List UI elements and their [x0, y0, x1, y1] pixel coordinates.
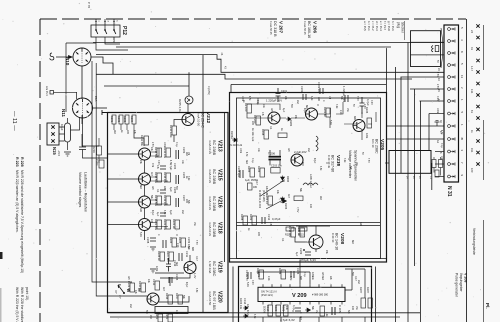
- wire left drop x92: [92, 61, 132, 282]
- svg-text:b: b: [116, 21, 118, 23]
- svg-text:2k2: 2k2: [149, 315, 152, 320]
- svg-text:R215 56k: R215 56k: [154, 172, 158, 184]
- svg-text:N 31: N 31: [446, 186, 452, 197]
- wire long bus y42: [93, 42, 444, 44]
- cap under N11: [79, 115, 107, 158]
- svg-text:C203 10n: C203 10n: [271, 165, 282, 168]
- svg-text:Impulsgeber: Impulsgeber: [459, 273, 463, 293]
- coupling cap stage4: [160, 210, 173, 216]
- svg-text:C 305: C 305: [338, 305, 342, 313]
- svg-text:g = PL8: g = PL8: [387, 21, 391, 31]
- svg-text:0,1µ: 0,1µ: [303, 272, 305, 277]
- input resistor R204: [130, 115, 136, 130]
- rail from box top to stages: [108, 112, 181, 114]
- resistors at connector bottom: [432, 157, 443, 177]
- svg-text:0,1: 0,1: [156, 189, 159, 193]
- svg-text:100: 100: [150, 219, 153, 224]
- diode D282: [286, 117, 293, 127]
- svg-text:3: 3: [460, 150, 464, 152]
- diagonal leader lines: [260, 180, 285, 209]
- svg-text:7,5V: 7,5V: [436, 72, 438, 77]
- svg-text:7,5V: 7,5V: [367, 158, 369, 163]
- svg-text:V215: V215: [217, 169, 223, 181]
- label V220: [208, 291, 223, 310]
- svg-text:1: 1: [460, 99, 464, 101]
- svg-text:C310: C310: [266, 305, 270, 312]
- svg-text:V205: V205: [379, 139, 385, 151]
- svg-text:11: 11: [470, 130, 474, 133]
- svg-text:V208: V208: [339, 233, 345, 245]
- svg-text:56k: 56k: [311, 306, 314, 311]
- svg-text:4,7µF: 4,7µF: [366, 99, 370, 106]
- wire V212 collector up: [187, 104, 189, 114]
- box2 internal rails: [237, 223, 381, 226]
- svg-text:(PL# 121): (PL# 121): [261, 293, 273, 297]
- label V213: [208, 140, 223, 156]
- svg-text:10k: 10k: [147, 279, 150, 284]
- svg-text:47µF: 47µF: [185, 282, 187, 288]
- svg-text:R305: R305: [282, 305, 286, 312]
- svg-text:C201: C201: [95, 159, 99, 166]
- svg-text:8k2: 8k2: [351, 240, 354, 245]
- svg-text:R 223: R 223: [15, 157, 19, 167]
- svg-text:6,8k: 6,8k: [195, 288, 197, 293]
- resistor R211 above V213: [140, 135, 149, 147]
- board outline box1: [108, 113, 229, 313]
- resistor row under rails: [285, 227, 307, 237]
- transistor V208: [305, 235, 323, 249]
- cluster left-mid box2 row: [237, 166, 265, 178]
- label Stecker plug: [397, 21, 405, 40]
- extra annotation speckle: [127, 60, 442, 319]
- transistor V216: [139, 196, 151, 208]
- DIN socket N10: [73, 48, 91, 66]
- svg-text:C204: C204: [173, 163, 177, 170]
- cluster above V219: [157, 251, 189, 263]
- svg-text:0,47: 0,47: [255, 180, 258, 185]
- svg-text:2,2k: 2,2k: [339, 110, 342, 115]
- tiny pin labels right of buses: [437, 68, 442, 154]
- cap C226: [169, 274, 179, 283]
- box3 outer left edge: [232, 267, 234, 322]
- svg-text:R: R: [325, 162, 327, 164]
- svg-text:With R 223 the (5) 5 V are adj: With R 223 the (5) 5 V are adjusted.: [15, 287, 19, 322]
- svg-text:9 40 10: 9 40 10: [331, 233, 335, 243]
- wire y86 to V211: [104, 85, 189, 87]
- svg-text:V218: V218: [217, 222, 223, 234]
- svg-text:point 15).: point 15).: [25, 287, 29, 301]
- svg-text:L206 1,2µH: L206 1,2µH: [309, 174, 313, 188]
- svg-text:3,9k: 3,9k: [325, 312, 327, 317]
- svg-text:V 209: V 209: [292, 293, 307, 299]
- svg-text:8: 8: [460, 51, 464, 53]
- small component cluster near box1 top-left: [95, 159, 104, 168]
- svg-text:12k: 12k: [134, 290, 137, 295]
- cap C201 top: [276, 88, 288, 102]
- svg-text:47µF: 47µF: [151, 210, 153, 216]
- transistor V218: [139, 219, 151, 231]
- base stub wires: [108, 154, 139, 225]
- svg-text:3,9k: 3,9k: [335, 104, 337, 109]
- caps around V204: [300, 82, 331, 117]
- svg-text:8: 8: [439, 152, 442, 154]
- stub PL4: [50, 91, 54, 95]
- svg-text:0,6V: 0,6V: [251, 280, 253, 285]
- svg-text:5,6V: 5,6V: [329, 120, 332, 125]
- svg-text:2k2: 2k2: [319, 196, 322, 201]
- wire N11 to box: [93, 107, 108, 109]
- transistor V220: [147, 293, 159, 305]
- svg-text:1µF: 1µF: [282, 108, 285, 113]
- label V210: [327, 155, 341, 172]
- svg-text:180: 180: [253, 186, 258, 189]
- svg-text:4k7: 4k7: [162, 287, 165, 292]
- svg-text:2,2k: 2,2k: [176, 243, 179, 248]
- bracket before connector: [441, 28, 443, 68]
- vertical bus x386: [386, 48, 388, 259]
- diode D206 mid: [281, 199, 288, 210]
- svg-text:R2 100: R2 100: [244, 103, 248, 112]
- svg-text:2n2: 2n2: [357, 280, 359, 285]
- diode D307: [243, 306, 267, 318]
- connector strip N31: [444, 25, 464, 182]
- svg-text:R212 56k: R212 56k: [154, 147, 158, 159]
- svg-text:C226: C226: [175, 274, 179, 281]
- svg-text:e = PL4: e = PL4: [379, 21, 383, 31]
- svg-text:4,7k: 4,7k: [248, 96, 250, 101]
- svg-text:R: R: [175, 234, 177, 236]
- wire P12 pin1 down: [96, 37, 128, 50]
- vertical coil L206b: [316, 136, 318, 151]
- svg-text:61: 61: [470, 110, 474, 113]
- components right of V220: [165, 293, 183, 304]
- svg-text:4k7: 4k7: [287, 194, 290, 199]
- svg-text:D283: D283: [286, 176, 289, 183]
- short segments x483: [483, 25, 485, 322]
- wire V212 base: [174, 120, 182, 143]
- bottom rail components: [155, 313, 173, 322]
- svg-text:C231: C231: [165, 313, 169, 320]
- svg-text:680: 680: [353, 116, 356, 121]
- svg-text:1µF: 1µF: [156, 212, 159, 217]
- svg-text:220: 220: [257, 232, 260, 237]
- svg-text:4,7k: 4,7k: [289, 276, 291, 281]
- coupling cap stage1: [151, 163, 177, 170]
- svg-text:R221 56k: R221 56k: [154, 219, 158, 231]
- svg-text:4k7: 4k7: [299, 316, 302, 321]
- svg-text:f = PL7: f = PL7: [383, 21, 387, 30]
- wire long bus y47: [116, 46, 391, 48]
- diode D305: [305, 308, 311, 312]
- svg-text:R218 56k: R218 56k: [154, 195, 158, 207]
- svg-text:R223 2k: R223 2k: [172, 219, 176, 229]
- wire stubs below box3: [263, 317, 365, 322]
- input resistor R202: [117, 115, 123, 130]
- svg-text:R: R: [291, 310, 293, 312]
- svg-text:7: 7: [460, 162, 464, 164]
- svg-text:560: 560: [290, 104, 292, 109]
- svg-text:R224: R224: [169, 237, 173, 244]
- svg-text:Pl.: Pl.: [485, 303, 490, 309]
- resistor cluster under V210: [265, 194, 303, 213]
- resistor column under IC: [266, 305, 288, 316]
- svg-text:DC 318 B: DC 318 B: [273, 21, 277, 37]
- svg-text:10k: 10k: [150, 147, 153, 152]
- cluster mid box2: [261, 128, 287, 139]
- svg-text:V212: V212: [205, 112, 211, 124]
- svg-text:47k: 47k: [133, 130, 136, 135]
- svg-text:30: 30: [439, 120, 442, 123]
- svg-text:D 293 A,D 206: D 293 A,D 206: [258, 190, 262, 209]
- svg-text:100: 100: [470, 168, 474, 173]
- label V208: [331, 233, 345, 250]
- svg-text:5V: 5V: [436, 60, 438, 63]
- svg-text:0,1: 0,1: [269, 126, 272, 130]
- svg-text:5,6V: 5,6V: [139, 232, 142, 237]
- bottom rail wires: [108, 312, 421, 314]
- svg-text:82k: 82k: [187, 200, 189, 205]
- svg-text:5V: 5V: [187, 246, 189, 249]
- svg-text:330: 330: [359, 222, 362, 227]
- svg-text:7,5V: 7,5V: [195, 240, 197, 245]
- svg-text:0,6V: 0,6V: [436, 96, 438, 101]
- svg-text:15n: 15n: [193, 222, 195, 227]
- svg-text:3k3: 3k3: [175, 262, 178, 267]
- capacitor C near V205: [360, 97, 371, 114]
- svg-text:9: 9: [460, 175, 464, 177]
- svg-text:1M: 1M: [187, 152, 189, 155]
- svg-text:D206: D206: [284, 203, 288, 210]
- svg-text:R 228: R 228: [20, 157, 24, 167]
- resistor row above V220: [127, 279, 160, 293]
- svg-text:Voltage converter: Voltage converter: [348, 150, 352, 179]
- svg-text:1M: 1M: [328, 96, 330, 99]
- svg-text:R203: R203: [123, 116, 127, 123]
- svg-text:R210 120k: R210 120k: [169, 125, 173, 138]
- svg-text:10n: 10n: [440, 156, 442, 161]
- cap C1 220uF label top: [342, 86, 348, 102]
- board outline box2 inner: [237, 98, 381, 259]
- connector P12: [91, 19, 120, 37]
- svg-text:2n2: 2n2: [307, 148, 309, 153]
- svg-text:1k 13k 1,6k: 1k 13k 1,6k: [251, 128, 255, 142]
- svg-text:V216: V216: [217, 196, 223, 208]
- svg-text:4: 4: [460, 39, 464, 41]
- resistor R126 above V205: [365, 107, 372, 128]
- small resistor R229: [92, 138, 102, 163]
- component cluster stage4: [154, 219, 180, 231]
- wire V220 out: [159, 277, 189, 302]
- label V218: [208, 222, 223, 238]
- svg-text:±0°: ±0°: [114, 290, 118, 294]
- svg-text:R209: R209: [249, 214, 253, 221]
- svg-text:4k7: 4k7: [150, 172, 153, 177]
- svg-text:4,7k: 4,7k: [245, 152, 247, 157]
- input resistor R201: [110, 115, 116, 130]
- cap C209 under V208: [299, 248, 311, 255]
- svg-text:R212 100: R212 100: [288, 226, 292, 238]
- wire V219 emitter: [155, 255, 190, 278]
- svg-text:R202: R202: [117, 116, 121, 123]
- transistor V213: [139, 148, 151, 160]
- plug frame box: [385, 140, 439, 179]
- svg-text:101 10: 101 10: [371, 139, 375, 148]
- svg-text:V 208: V 208: [464, 273, 468, 282]
- ground marks mid-left: [150, 247, 156, 251]
- scan edge artifact: [0, 252, 3, 259]
- svg-text:0,1µ: 0,1µ: [256, 100, 258, 105]
- cluster top-left of box2: [244, 103, 261, 142]
- svg-text:1,3V 4mA: 1,3V 4mA: [208, 261, 212, 273]
- svg-text:24: 24: [470, 30, 474, 33]
- svg-text:47k: 47k: [151, 163, 155, 168]
- svg-text:4 can 50 25: 4 can 50 25: [303, 21, 307, 35]
- svg-text:6,8k: 6,8k: [253, 314, 255, 319]
- svg-text:C211: C211: [185, 251, 189, 258]
- svg-text:P 70: P 70: [87, 2, 91, 8]
- svg-text:R211 56k: R211 56k: [140, 135, 144, 147]
- wires inside box2 top: [247, 98, 343, 128]
- svg-text:8k2: 8k2: [139, 185, 142, 190]
- svg-text:10µF: 10µF: [60, 124, 64, 131]
- svg-text:V 207: V 207: [279, 21, 284, 33]
- svg-text:C: C: [322, 100, 324, 102]
- svg-text:47k: 47k: [269, 222, 272, 227]
- cap 4,7uF: [292, 305, 301, 311]
- transistor V219: [184, 262, 196, 274]
- svg-text:2n2: 2n2: [181, 210, 183, 215]
- svg-text:1k5: 1k5: [287, 148, 289, 152]
- wire N10 to N11: [81, 66, 83, 99]
- box3 outer right edge: [375, 267, 377, 322]
- svg-text:3k3: 3k3: [321, 276, 324, 281]
- head symbol B with arrow: [114, 285, 131, 299]
- svg-text:0,47: 0,47: [195, 256, 198, 261]
- svg-text:R229: R229: [92, 146, 96, 153]
- svg-text:82k: 82k: [347, 310, 349, 315]
- svg-text:D206A: D206A: [230, 131, 234, 139]
- svg-text:R213 10k: R213 10k: [163, 147, 167, 159]
- svg-text:330: 330: [139, 208, 142, 213]
- svg-text:0,1µ: 0,1µ: [251, 158, 253, 163]
- svg-text:191: 191: [470, 148, 474, 153]
- svg-text:220: 220: [126, 130, 129, 135]
- svg-text:43: 43: [220, 53, 223, 56]
- svg-text:R229 62k: R229 62k: [127, 281, 131, 293]
- svg-text:15n: 15n: [355, 306, 357, 311]
- svg-text:c = PL2: c = PL2: [371, 21, 375, 31]
- svg-text:0,47µF: 0,47µF: [272, 217, 281, 221]
- svg-text:5V: 5V: [361, 152, 363, 155]
- dashed page border left: [39, 19, 41, 322]
- cap C305: [320, 305, 342, 316]
- wire box2 bottom bus: [230, 258, 387, 260]
- board outline box3: [239, 267, 372, 322]
- svg-text:Pulse generator: Pulse generator: [455, 273, 459, 298]
- arrow into N10: [56, 56, 72, 59]
- svg-text:15k: 15k: [139, 160, 142, 165]
- svg-text:R206: R206: [257, 166, 261, 173]
- svg-text:4 mA 10 2k: 4 mA 10 2k: [208, 222, 212, 237]
- svg-text:D306: D306: [263, 306, 267, 313]
- svg-text:1M: 1M: [337, 162, 339, 165]
- svg-text:0,47: 0,47: [354, 276, 357, 281]
- resistors left of V208: [288, 226, 305, 238]
- svg-text:120k: 120k: [365, 133, 368, 139]
- svg-text:— 11 —: — 11 —: [11, 111, 17, 131]
- wire P12 pin3 down: [113, 37, 115, 43]
- ground under electrolytic: [64, 152, 71, 156]
- svg-text:N11: N11: [61, 109, 66, 118]
- mic curl symbol: [50, 53, 54, 60]
- svg-text:6,8k: 6,8k: [310, 96, 312, 101]
- wire N10 right steps: [91, 57, 113, 74]
- svg-text:1.17: 1.17: [470, 66, 474, 72]
- transistor V205: [353, 120, 365, 132]
- ground at pin 113: [435, 120, 440, 126]
- svg-text:1k5: 1k5: [270, 108, 272, 112]
- svg-text:T 206: T 206: [268, 152, 276, 156]
- svg-text:100: 100: [175, 310, 178, 315]
- transistor V212: [182, 114, 194, 126]
- wire left drop x66: [66, 43, 96, 112]
- connector N15: [47, 123, 65, 145]
- stub wires lower pins: [387, 125, 445, 127]
- svg-text:1µF: 1µF: [169, 210, 173, 215]
- component cluster stage1: [154, 147, 186, 159]
- transistor V203: [268, 112, 280, 124]
- svg-text:# 989 380 380: # 989 380 380: [312, 293, 329, 296]
- svg-text:Volume control stages: Volume control stages: [78, 172, 82, 208]
- transistor V204: [306, 108, 318, 120]
- svg-text:5V: 5V: [352, 104, 354, 107]
- svg-text:Lautstärke – Regelstufen: Lautstärke – Regelstufen: [84, 172, 88, 212]
- svg-text:3,9k: 3,9k: [343, 158, 345, 163]
- svg-text:15: 15: [437, 89, 440, 92]
- svg-text:1µF: 1µF: [169, 187, 173, 192]
- resistors R207 R307: [359, 287, 373, 308]
- svg-text:220: 220: [251, 121, 254, 126]
- svg-text:D282: D282: [289, 120, 293, 127]
- svg-text:R216 10k: R216 10k: [163, 172, 167, 184]
- svg-text:With R 228 the stabilized 7,5: With R 228 the stabilized 7,5 V supply i…: [20, 287, 24, 322]
- svg-text:R213 1k: R213 1k: [297, 226, 301, 236]
- svg-text:R207: R207: [359, 287, 363, 294]
- electrolytic capacitor: [60, 117, 80, 150]
- svg-text:R219 10k: R219 10k: [163, 195, 167, 207]
- label V215: [208, 169, 223, 185]
- svg-text:82k: 82k: [340, 96, 342, 101]
- svg-text:100: 100: [309, 204, 312, 209]
- x-mark column: [476, 24, 479, 165]
- switch box bottom: [155, 307, 188, 314]
- svg-text:7,5V: 7,5V: [356, 96, 358, 101]
- svg-text:4,7k: 4,7k: [440, 130, 442, 135]
- wire left drop x96 long: [96, 63, 147, 296]
- wire fan to right y54: [96, 55, 444, 73]
- dashed page border top: [40, 18, 466, 20]
- svg-text:R265 4,7k: R265 4,7k: [178, 99, 182, 112]
- svg-text:C212: C212: [267, 214, 271, 221]
- svg-text:Mit R 228 wird die stabilisier: Mit R 228 wird die stabilisierte 7,5 V-S…: [20, 170, 24, 273]
- svg-text:56k: 56k: [150, 195, 153, 200]
- label V207: [269, 21, 284, 37]
- svg-text:47µF: 47µF: [303, 108, 305, 114]
- svg-text:41: 41: [470, 47, 474, 50]
- wire bus y84: [231, 85, 386, 93]
- svg-text:R204: R204: [130, 116, 134, 123]
- svg-text:R203 4k: R203 4k: [323, 107, 327, 117]
